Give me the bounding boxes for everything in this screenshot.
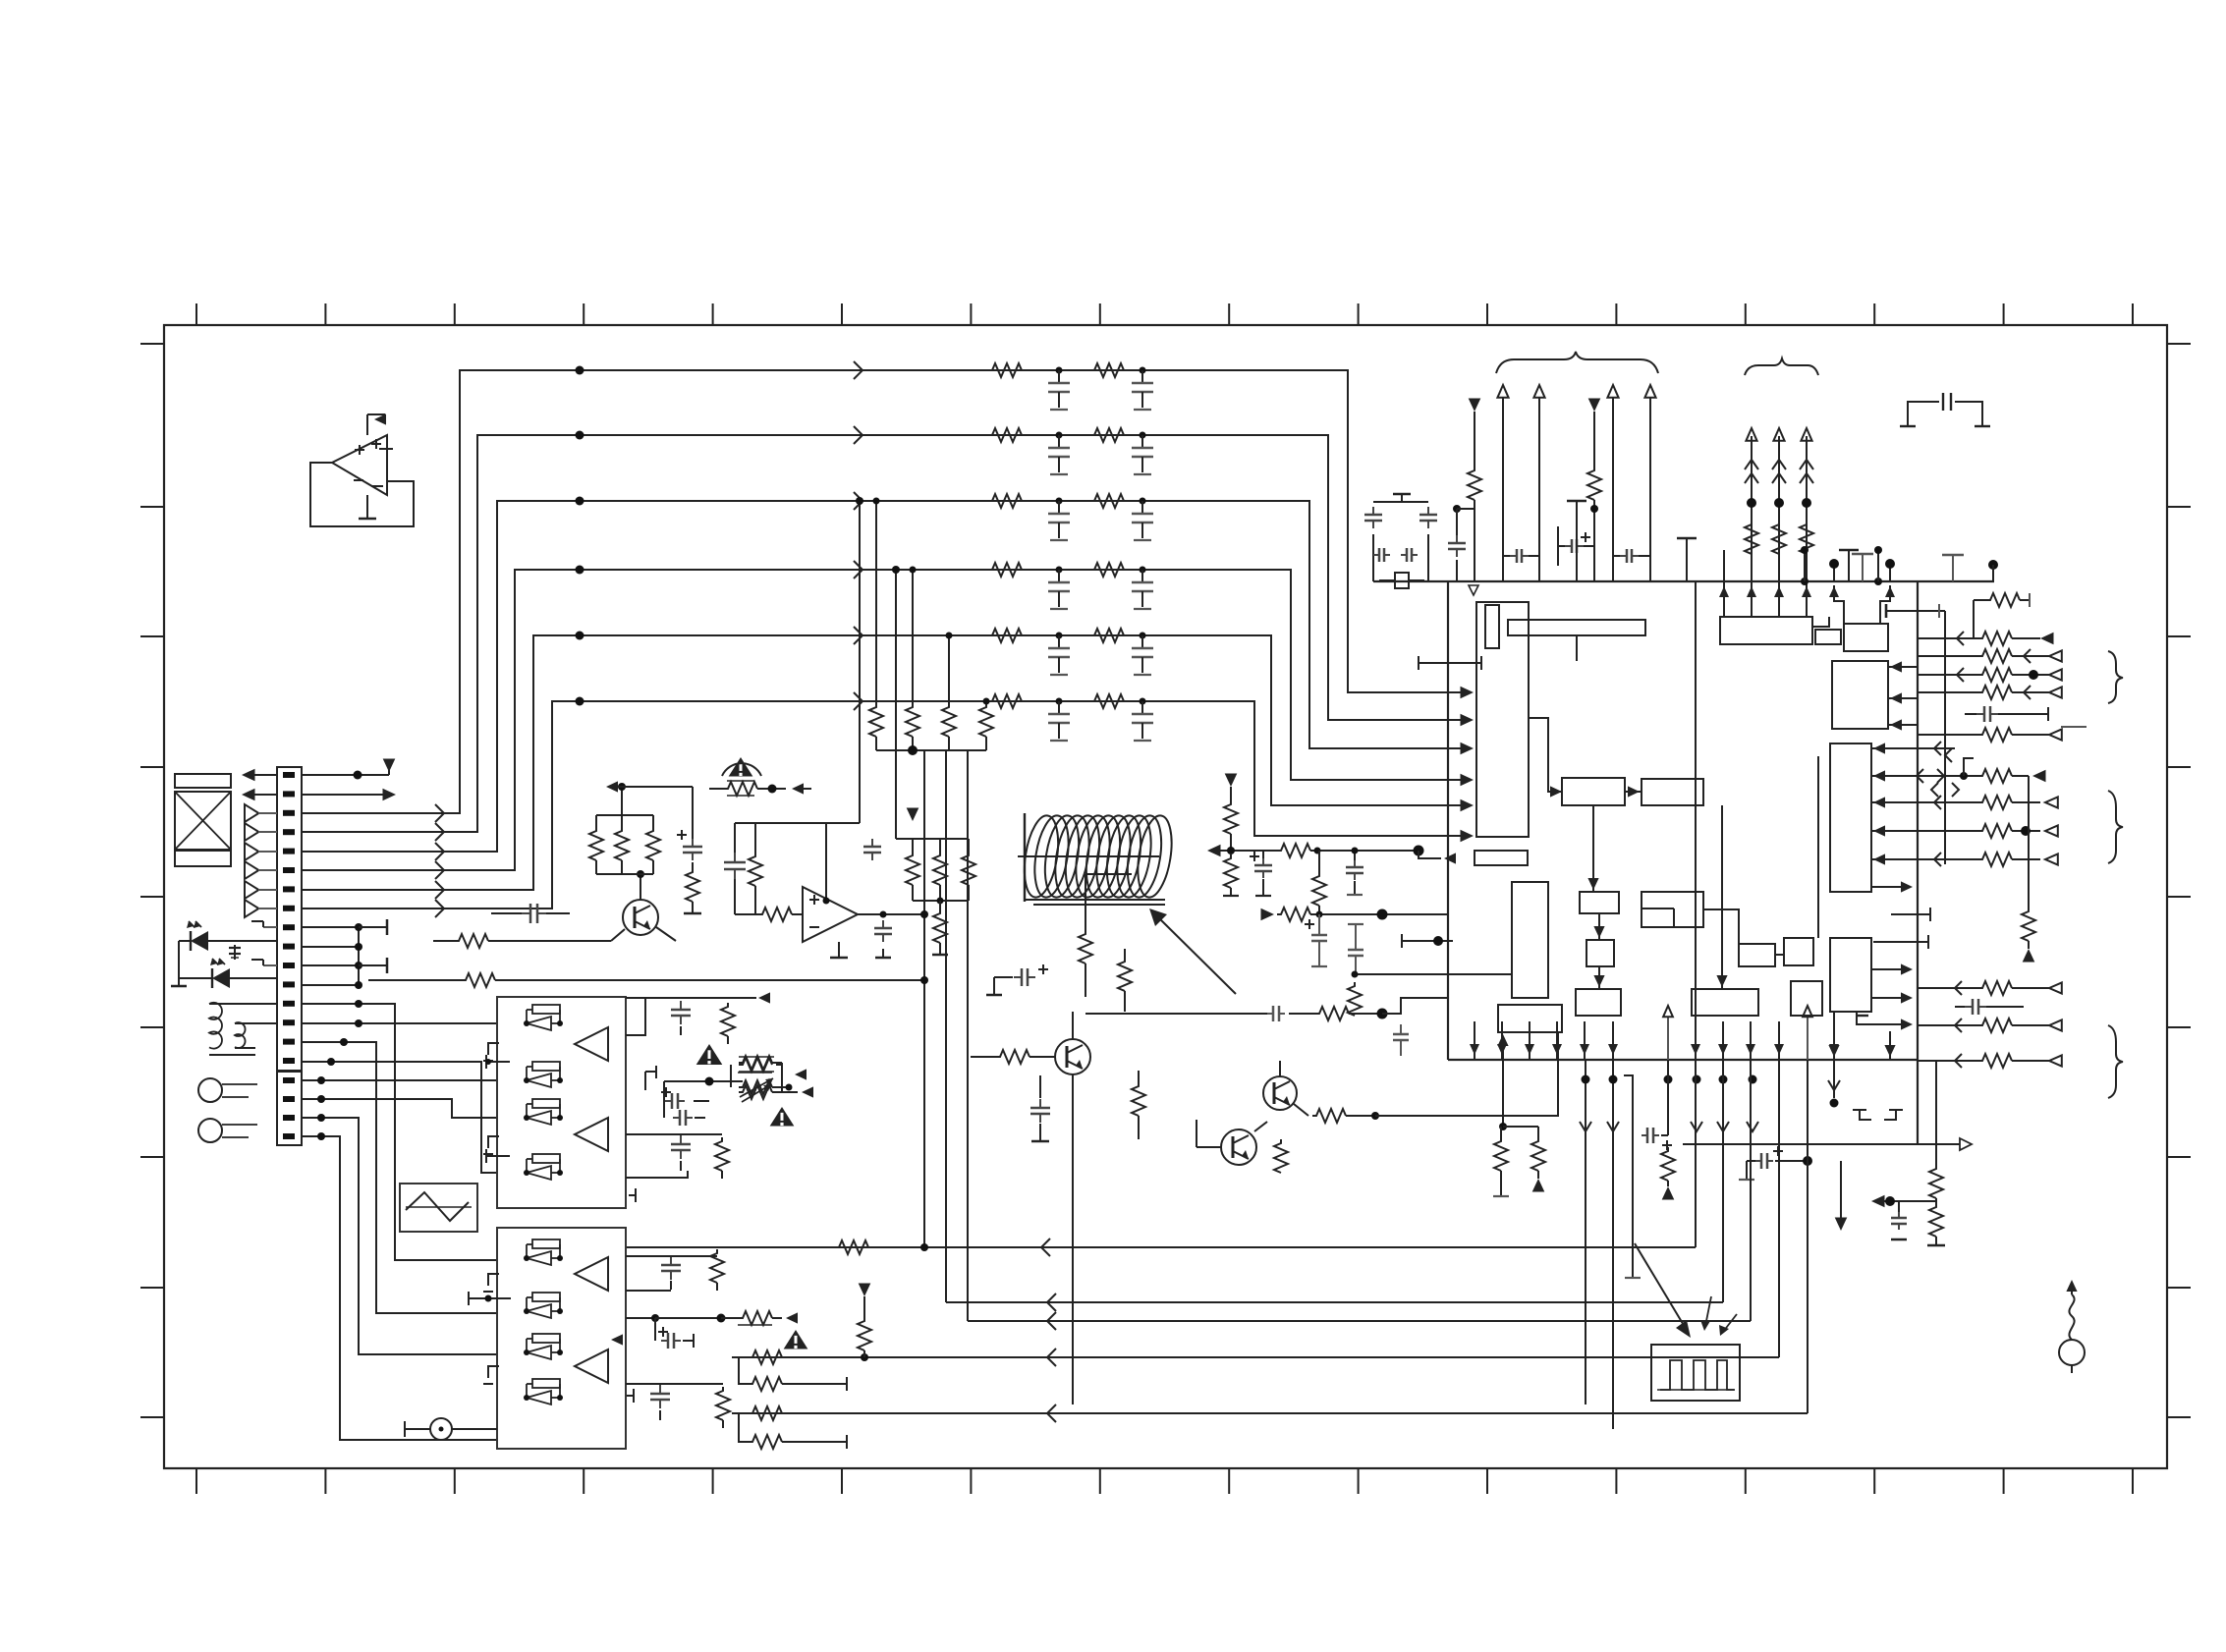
CN1 pin1 net bbox=[302, 759, 395, 780]
bar link right bbox=[1886, 604, 1945, 618]
DB2 trimmer cap cluster bbox=[611, 1311, 807, 1349]
IC U10 outline bbox=[1373, 555, 1998, 1144]
bus line 5 RC filter bbox=[988, 629, 1153, 675]
IC block R bbox=[1830, 743, 1871, 892]
bus line 5 wire bbox=[301, 627, 1474, 899]
IC top dot stubs bbox=[1829, 554, 1895, 581]
return line 4 bbox=[732, 1349, 1779, 1366]
DB2 tee link bbox=[469, 1292, 511, 1305]
fan row 748 bbox=[1918, 727, 2087, 742]
warning trimmer cluster A bbox=[709, 757, 811, 796]
return line 3 bbox=[968, 1312, 1751, 1330]
right brace 1 bbox=[2108, 651, 2123, 703]
open up arrow 1 bbox=[1663, 1006, 1673, 1135]
IC top tees bbox=[1677, 538, 1882, 585]
transistor Q1 bbox=[433, 870, 676, 948]
driver block DB1 bbox=[497, 997, 626, 1208]
headphone jacks bbox=[198, 1078, 257, 1142]
Q2 emitter cap bbox=[1030, 1075, 1050, 1141]
IC block I bbox=[1692, 989, 1758, 1016]
return line 2 bbox=[946, 1294, 1723, 1311]
IC block S bbox=[1830, 938, 1871, 1012]
DB1 warning trimmer cluster bbox=[661, 1044, 813, 1126]
bus line 4 RC filter bbox=[988, 563, 1153, 609]
IC block O2 bbox=[1815, 630, 1841, 644]
bus pulldown resistor group bbox=[869, 498, 993, 756]
line D to IC bbox=[1085, 998, 1448, 1021]
IC internal wiring bbox=[1529, 617, 1829, 989]
line B electrolytic bbox=[1305, 914, 1327, 966]
line5 left resistor pair bbox=[739, 1406, 847, 1449]
top tee 1 bbox=[1567, 501, 1586, 581]
Vref drop 1 bbox=[1448, 399, 1481, 582]
op-amp input RC pair bbox=[724, 823, 860, 914]
op-amp U1 (spindle servo) bbox=[310, 413, 414, 526]
IC block P bbox=[1844, 624, 1888, 651]
CN1 pin15 wire to driver bbox=[302, 1038, 497, 1313]
frame tick marks bbox=[140, 303, 2191, 1494]
DB2 gate stubs bbox=[483, 1274, 499, 1384]
Q1 top rail bbox=[606, 781, 693, 815]
IC block G bbox=[1586, 940, 1614, 966]
bus line 6 wire bbox=[301, 692, 1474, 917]
DB1 gate stubs bbox=[483, 1043, 499, 1154]
bus drop wires to servo amp bbox=[856, 497, 900, 839]
bus line 1 RC filter bbox=[988, 363, 1153, 410]
DB1 output RC B bbox=[626, 1134, 729, 1179]
Vref drop 2 bbox=[1587, 399, 1601, 582]
bus line 6 RC filter bbox=[988, 694, 1153, 741]
IC block D bbox=[1642, 779, 1703, 805]
crystal X1 circuit bbox=[1364, 494, 1437, 588]
center vertical wires bbox=[920, 750, 968, 1321]
IC block E bbox=[1580, 892, 1619, 913]
IC block K bbox=[1784, 938, 1813, 965]
H2 feedback wire bbox=[1375, 1032, 1558, 1116]
IC block M bbox=[1485, 605, 1499, 648]
drop wire dots bbox=[1664, 1060, 1841, 1131]
line4 pullup resistor bbox=[858, 1284, 871, 1358]
return line 1 bbox=[626, 1239, 1696, 1256]
DB1 right tees bbox=[629, 1066, 656, 1202]
LED D2 bbox=[179, 959, 277, 988]
IC bottom inner drops bbox=[1828, 1012, 1895, 1060]
DB1 tee links bbox=[485, 1055, 510, 1163]
IC block A2 bbox=[1475, 851, 1528, 865]
inductor pair L1 bbox=[209, 1003, 277, 1055]
right rail 1980 bbox=[1931, 611, 1959, 864]
line A hanging RC bbox=[1312, 848, 1363, 915]
DB2 output RC A bbox=[626, 1249, 724, 1291]
IC block B bbox=[1512, 882, 1548, 998]
Q2 aux resistor bbox=[1078, 874, 1132, 1012]
transistor Q3 bbox=[1196, 1120, 1256, 1165]
connector CN2 bbox=[277, 1071, 302, 1145]
Q2 base cap bbox=[986, 964, 1073, 995]
U2 feedback resistor group bbox=[896, 808, 975, 956]
buffer triangles row bbox=[245, 804, 277, 917]
brace 1 bbox=[1496, 352, 1658, 373]
pulse waveform box bbox=[1651, 1345, 1740, 1401]
bus line 1 wire bbox=[301, 361, 1474, 822]
IC block J bbox=[1739, 944, 1775, 966]
CN1 pin16 wire to driver bbox=[302, 1058, 497, 1173]
return line 5 bbox=[732, 1404, 1808, 1422]
pulse box pointer arrows bbox=[1635, 1243, 1737, 1338]
warning trimmer cluster B bbox=[731, 1057, 807, 1127]
waveform box (triangle) bbox=[400, 1184, 477, 1232]
center lower resistor B bbox=[1274, 1139, 1288, 1173]
LED D1 bbox=[179, 921, 277, 951]
IC right box arrows bbox=[1871, 661, 1918, 864]
bus line 4 wire bbox=[301, 561, 1474, 879]
line B to IC bbox=[1261, 908, 1449, 921]
IC bottom pin arrows bbox=[1470, 1021, 1839, 1060]
IC block O bbox=[1720, 617, 1812, 644]
IC top entry arrows bbox=[1719, 550, 1895, 624]
IC bottom drop wires A bbox=[1580, 1060, 1619, 1429]
driver block DB2 bbox=[497, 1228, 626, 1449]
below-IC electrolytic bbox=[1624, 1075, 1675, 1278]
decoupling caps top bbox=[1503, 526, 1650, 566]
IC block L bbox=[1791, 981, 1822, 1016]
ground pair bottom right bbox=[1853, 1110, 1903, 1120]
IC block C bbox=[1562, 778, 1625, 805]
return drop verticals bbox=[1696, 581, 1808, 1413]
below-IC plus cap bbox=[1739, 1146, 1847, 1231]
bus line 3 wire bbox=[301, 492, 1474, 860]
bus line 3 RC filter bbox=[988, 494, 1153, 540]
bus line 2 wire bbox=[301, 426, 1474, 841]
CN1 pin2 net bbox=[302, 789, 396, 801]
Q2 emitter drop wire bbox=[1072, 1074, 1074, 1404]
supply filter C/R right of Q1 bbox=[677, 787, 702, 913]
center lower resistor A bbox=[1132, 1041, 1200, 1139]
bus line 2 RC filter bbox=[988, 428, 1153, 474]
DB2 output RC B bbox=[626, 1384, 730, 1428]
open up arrow 2 bbox=[1803, 1006, 1812, 1060]
motor coil (scribble) bbox=[1018, 813, 1177, 905]
display drive arrows L bbox=[242, 769, 277, 801]
border frame bbox=[164, 325, 2167, 1468]
bar link 1 bbox=[1419, 656, 1481, 670]
fan1 top resistor bbox=[1974, 593, 2030, 638]
Q2 collector resistor bbox=[1079, 889, 1092, 997]
DB2 right tee bbox=[627, 1389, 634, 1403]
CN1 pin14 wire to driver bbox=[302, 1019, 497, 1027]
staple capacitor bbox=[1900, 393, 1990, 426]
coupling capacitor C-Q1 bbox=[491, 904, 570, 927]
line C to IC bbox=[1348, 971, 1512, 1017]
line C coupling cap bbox=[1348, 914, 1363, 974]
IC block A bbox=[1476, 602, 1529, 837]
right tee links bbox=[1873, 908, 1930, 949]
test point TP1 bbox=[405, 1418, 497, 1440]
CN1 pin13 wire to driver bbox=[302, 1000, 497, 1260]
right supply fan bbox=[1745, 428, 1813, 617]
brace 2 bbox=[1745, 358, 1818, 375]
transistor Q2 bbox=[971, 992, 1090, 1074]
IC block S out arrows bbox=[1818, 756, 1913, 1030]
CN1 pins 9-12 column bbox=[302, 919, 387, 989]
bias cap C+ bbox=[1250, 851, 1272, 896]
antenna squiggle symbol bbox=[2059, 1280, 2085, 1373]
IC bottom block H2 dividers bbox=[1493, 1005, 1562, 1196]
Q1 collector resistor trio bbox=[589, 815, 660, 889]
bias divider line A bbox=[1207, 774, 1456, 897]
fan cap row bbox=[1965, 706, 2048, 722]
fan group 2 bbox=[1917, 742, 2058, 963]
feedback divider bottom right bbox=[1871, 1060, 1945, 1245]
transistor Q4 bbox=[1254, 1061, 1379, 1131]
line4 left resistor pair bbox=[739, 1350, 847, 1391]
op-amp U2 bbox=[739, 823, 924, 958]
output line arrow bbox=[1683, 1138, 1972, 1150]
right brace 2 bbox=[2108, 791, 2123, 863]
display block (crossed box) bbox=[175, 774, 231, 866]
IC block H bbox=[1576, 989, 1621, 1016]
CN2 pin nets bbox=[302, 1076, 497, 1440]
IC block N bbox=[1508, 620, 1645, 635]
pin gamma hooks bbox=[251, 921, 277, 965]
fan group 1 bbox=[1918, 632, 2062, 699]
right brace 3 bbox=[2108, 1025, 2123, 1098]
IC top arrow fan bbox=[1497, 385, 1655, 581]
long rail y998 bbox=[359, 941, 928, 987]
IC block F bbox=[1642, 892, 1703, 927]
bar link 2b bbox=[1402, 934, 1453, 948]
line D cap bbox=[1393, 1024, 1409, 1056]
trimmer capacitor CT1 bbox=[229, 945, 241, 960]
DB1 output RC A bbox=[626, 992, 770, 1044]
connector CN1 bbox=[277, 767, 302, 1072]
IC block Q bbox=[1832, 661, 1888, 729]
fan group 3 bbox=[1918, 981, 2062, 1068]
LED wiring bbox=[171, 941, 187, 986]
coil pointer arrow bbox=[1149, 909, 1236, 994]
